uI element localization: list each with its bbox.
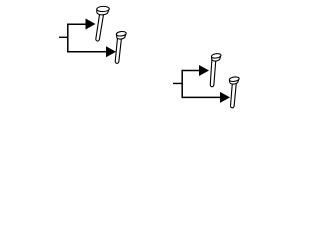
wire input stub 2 xyxy=(173,82,182,84)
wire vertical 2 xyxy=(181,70,183,98)
wire bottom branch 1 xyxy=(67,51,107,53)
arrowhead A1 xyxy=(86,19,96,30)
wire vertical 1 xyxy=(67,24,69,53)
wire bottom branch 2 xyxy=(182,96,222,98)
nail 1 xyxy=(95,6,109,41)
arrowhead A2 xyxy=(106,46,116,57)
nail 3 xyxy=(210,53,222,87)
nail 4 xyxy=(229,76,240,108)
wire top branch 1 xyxy=(67,23,87,25)
arrowhead A3 xyxy=(199,65,209,76)
arrowhead A4 xyxy=(220,92,230,103)
wire top branch 2 xyxy=(182,70,201,72)
wire input stub 1 xyxy=(59,36,68,38)
nail 2 xyxy=(115,31,127,64)
